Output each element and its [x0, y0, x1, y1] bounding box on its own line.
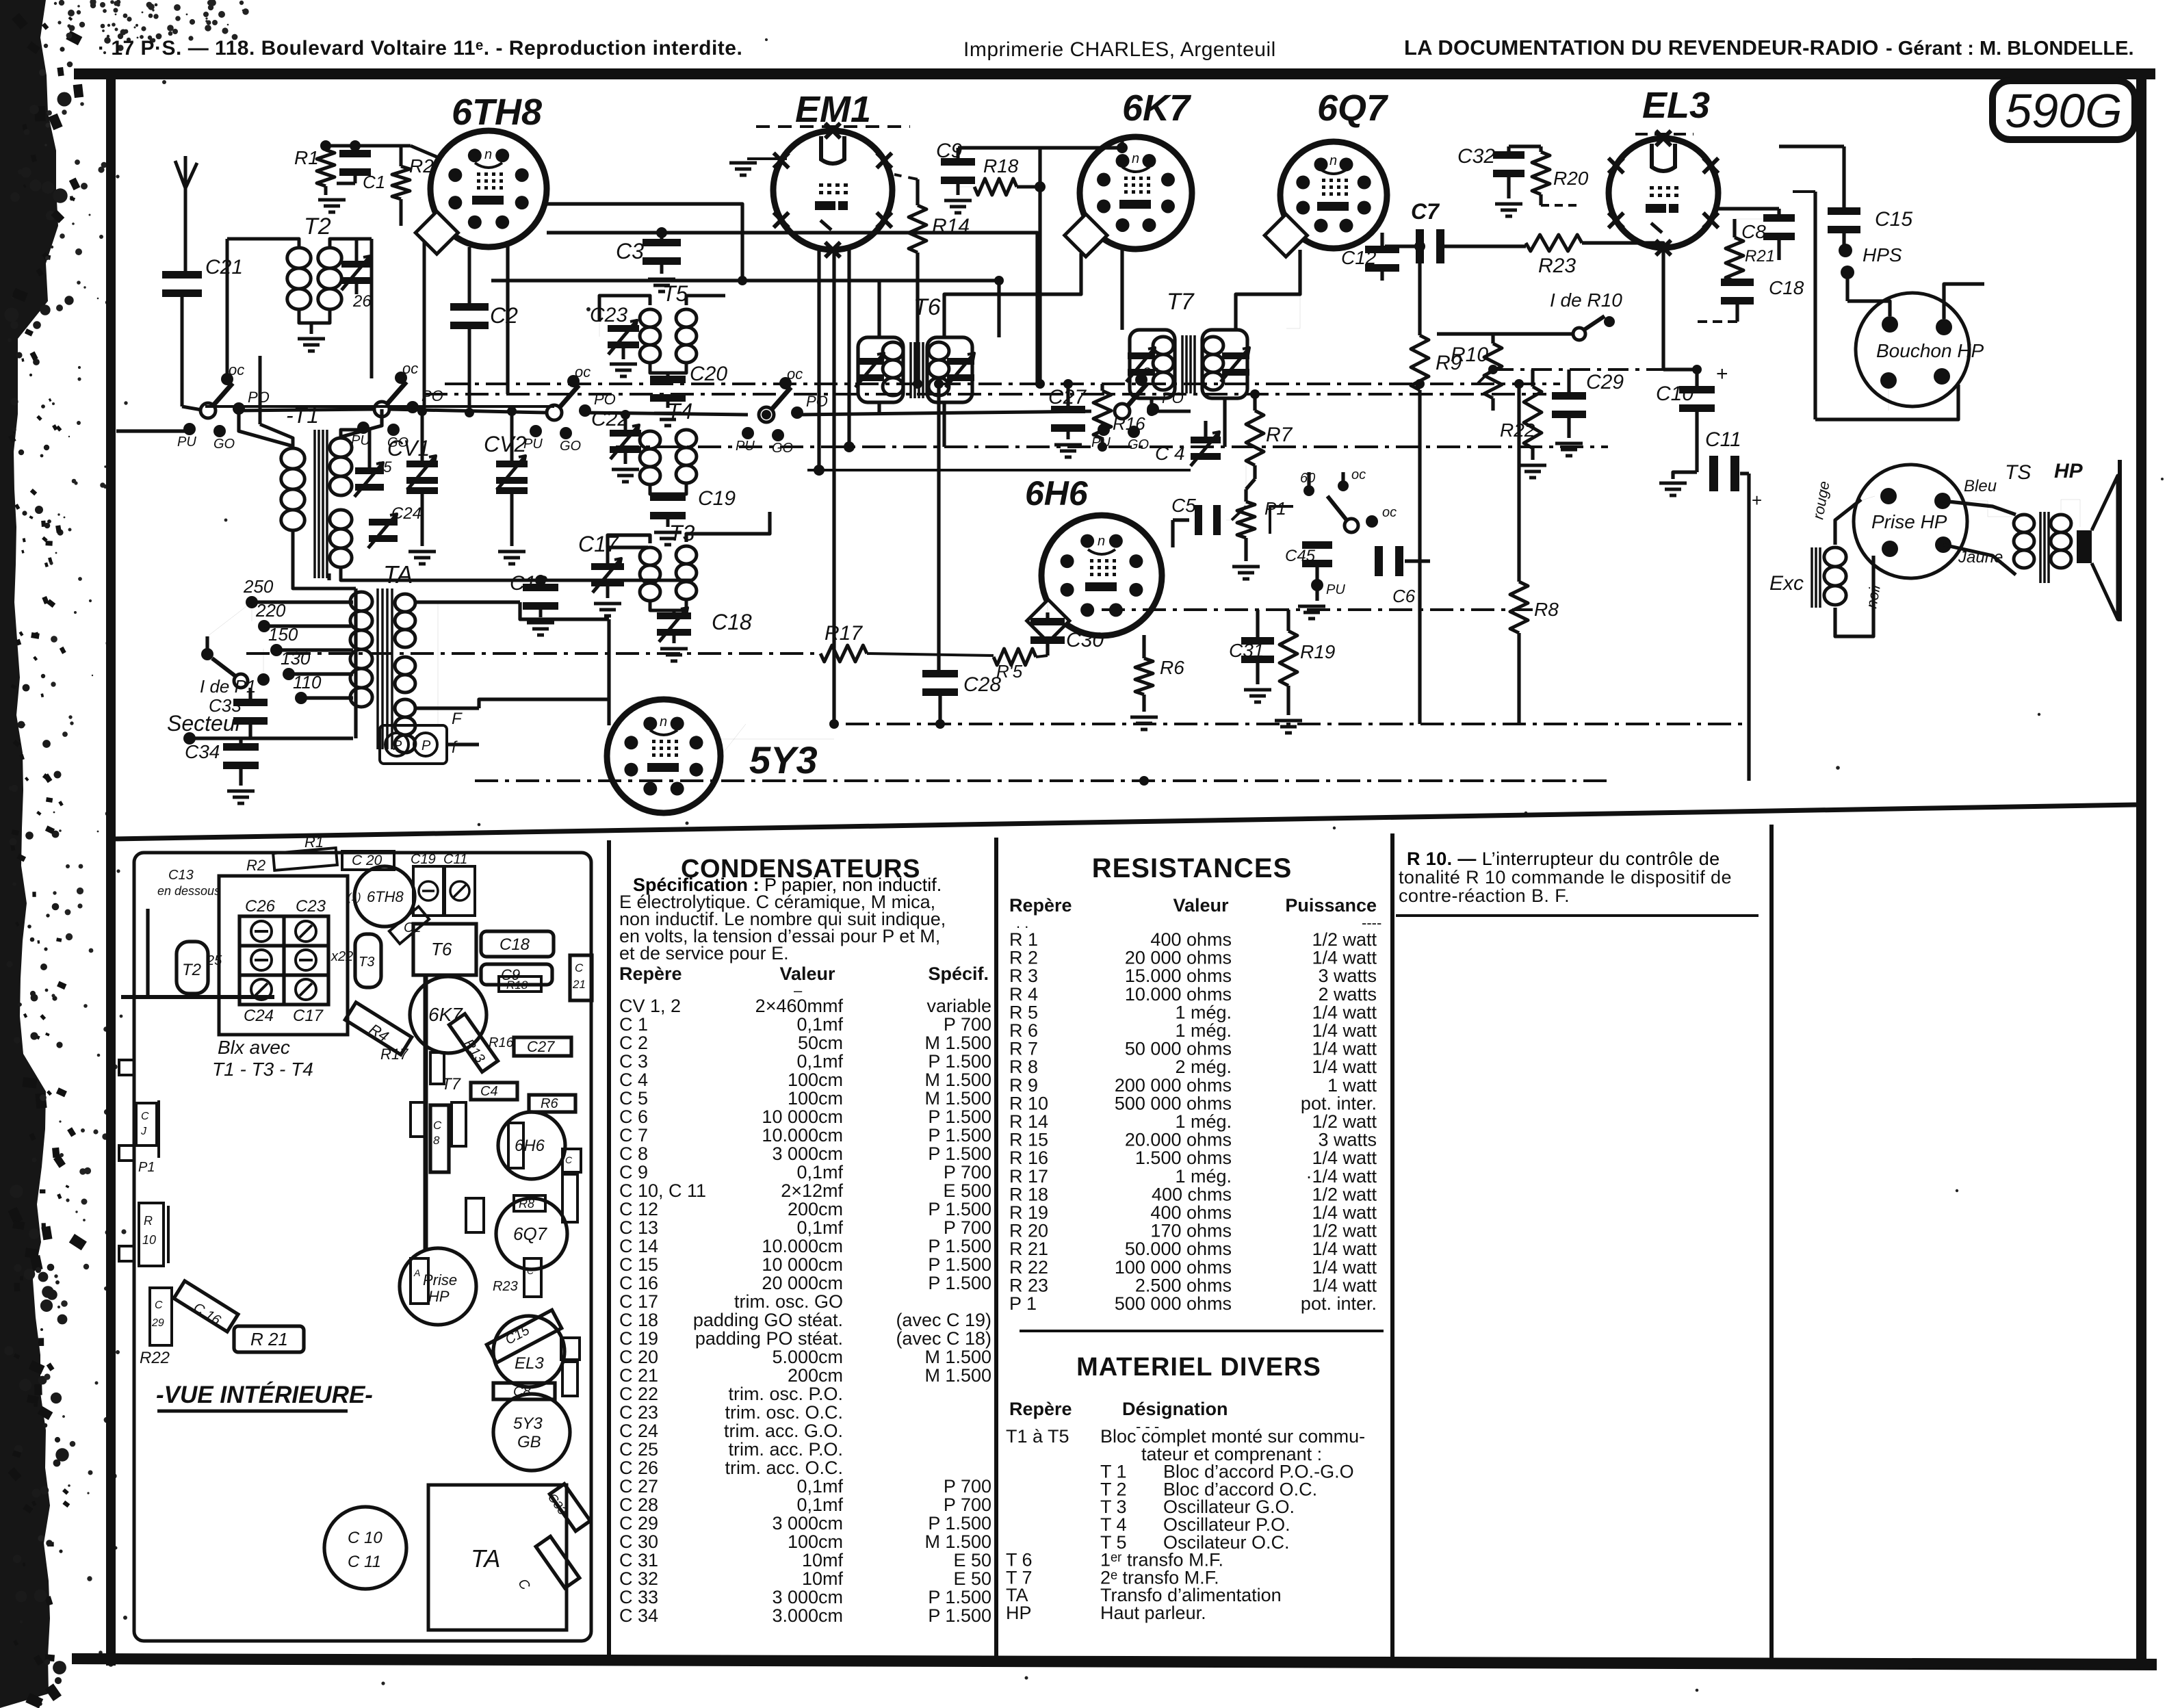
svg-text:C 23: C 23: [619, 1402, 658, 1423]
svg-text:P 700: P 700: [944, 1476, 991, 1497]
svg-text:C: C: [565, 1154, 573, 1165]
svg-text:oc: oc: [229, 361, 244, 378]
svg-text:R 4: R 4: [1009, 984, 1038, 1005]
svg-text:Repère: Repère: [1009, 1399, 1072, 1419]
svg-text:PU: PU: [351, 433, 370, 448]
svg-text:trim. acc. G.O.: trim. acc. G.O.: [724, 1421, 843, 1441]
svg-text:6Q7: 6Q7: [513, 1224, 548, 1244]
svg-text:10 000cm: 10 000cm: [762, 1107, 843, 1127]
svg-text:HPS: HPS: [1863, 244, 1902, 266]
svg-text:n: n: [484, 147, 492, 162]
svg-text:50.000 ohms: 50.000 ohms: [1125, 1239, 1232, 1259]
svg-text:170 ohms: 170 ohms: [1150, 1221, 1232, 1241]
svg-text:C27: C27: [527, 1038, 555, 1055]
svg-text:C19: C19: [411, 852, 436, 867]
svg-text:5.000cm: 5.000cm: [772, 1347, 843, 1367]
svg-text:C20: C20: [690, 363, 727, 385]
svg-text:6H6: 6H6: [515, 1137, 545, 1155]
svg-text:R22: R22: [1500, 419, 1535, 441]
svg-text:et de service pour E.: et de service pour E.: [619, 943, 789, 963]
svg-text:C8: C8: [1741, 221, 1766, 242]
svg-text:M 1.500: M 1.500: [924, 1531, 991, 1552]
svg-text:C10: C10: [1656, 383, 1694, 405]
svg-text:R6: R6: [1160, 657, 1184, 678]
svg-text:T5: T5: [662, 281, 688, 306]
svg-text:10 000cm: 10 000cm: [762, 1254, 843, 1275]
svg-text:EM1: EM1: [795, 89, 871, 130]
svg-text:GO: GO: [1128, 437, 1149, 452]
svg-text:590G: 590G: [2005, 84, 2122, 138]
svg-text:n: n: [660, 714, 667, 729]
svg-text:C 33: C 33: [619, 1587, 658, 1607]
svg-text:C18: C18: [1769, 277, 1804, 298]
svg-text:P 1.500: P 1.500: [928, 1125, 991, 1146]
svg-text:trim. acc. O.C.: trim. acc. O.C.: [725, 1458, 843, 1478]
svg-text:0,1mf: 0,1mf: [796, 1014, 843, 1035]
svg-text:T4: T4: [667, 399, 692, 424]
svg-text:C 11: C 11: [348, 1553, 381, 1571]
svg-text:EL3: EL3: [515, 1354, 544, 1373]
svg-text:HP: HP: [1006, 1603, 1032, 1623]
svg-text:T1 - T3 - T4: T1 - T3 - T4: [212, 1059, 313, 1080]
svg-text:400 chms: 400 chms: [1152, 1184, 1232, 1204]
svg-text:T6: T6: [431, 939, 452, 959]
svg-text:1/4 watt: 1/4 watt: [1312, 1148, 1377, 1168]
svg-text:M 1.500: M 1.500: [924, 1088, 991, 1109]
svg-text:M 1.500: M 1.500: [924, 1070, 991, 1090]
svg-text:1 watt: 1 watt: [1327, 1075, 1377, 1096]
svg-text:C31: C31: [1229, 640, 1264, 661]
svg-text:R21: R21: [1745, 247, 1775, 266]
svg-text:C6: C6: [1392, 586, 1416, 606]
svg-text:110: 110: [293, 672, 322, 693]
svg-text:C 21: C 21: [619, 1365, 658, 1386]
svg-text:C: C: [527, 1265, 534, 1276]
svg-text:C12: C12: [1341, 247, 1377, 268]
svg-text:R 10. — L’interrupteur du co: R 10. — L’interrupteur du contrôle de: [1407, 849, 1720, 869]
svg-text:+: +: [1716, 363, 1728, 385]
svg-text:P1: P1: [1264, 498, 1286, 519]
svg-text:MATERIEL DIVERS: MATERIEL DIVERS: [1076, 1353, 1321, 1382]
svg-text:10: 10: [142, 1233, 156, 1247]
svg-text:C 15: C 15: [619, 1254, 658, 1275]
svg-text:C 25: C 25: [619, 1439, 658, 1460]
svg-text:10.000cm: 10.000cm: [762, 1125, 843, 1146]
svg-text:C 20: C 20: [352, 853, 382, 868]
svg-text:C 6: C 6: [619, 1107, 648, 1127]
svg-text:T7: T7: [1167, 289, 1195, 315]
svg-text:n: n: [1329, 153, 1337, 168]
svg-text:C11: C11: [1705, 428, 1741, 451]
svg-text:M 1.500: M 1.500: [924, 1365, 991, 1386]
svg-text:GO: GO: [213, 437, 235, 452]
svg-text:R 15: R 15: [1009, 1130, 1048, 1150]
svg-text:C45: C45: [1285, 547, 1316, 565]
svg-text:C 24: C 24: [619, 1421, 658, 1441]
svg-text:C 31: C 31: [619, 1550, 658, 1570]
svg-text:1/2 watt: 1/2 watt: [1312, 1111, 1377, 1132]
svg-text:R22: R22: [140, 1349, 170, 1367]
svg-text:100cm: 100cm: [788, 1070, 843, 1090]
svg-text:50cm: 50cm: [798, 1033, 843, 1053]
svg-text:variable: variable: [926, 996, 991, 1016]
svg-text:C 12: C 12: [619, 1199, 658, 1219]
svg-text:trim. osc. GO: trim. osc. GO: [734, 1291, 843, 1312]
svg-text:PU: PU: [1326, 582, 1345, 597]
svg-text:R16: R16: [1113, 413, 1145, 434]
svg-text:C 18: C 18: [619, 1310, 658, 1330]
svg-text:TS: TS: [2005, 461, 2031, 484]
svg-text:C 28: C 28: [619, 1494, 658, 1515]
svg-text:1 még.: 1 még.: [1175, 1020, 1232, 1041]
svg-text:R 14: R 14: [1009, 1111, 1048, 1132]
svg-text:R 10: R 10: [1009, 1093, 1048, 1113]
svg-text:C24: C24: [391, 504, 421, 523]
svg-text:C 17: C 17: [619, 1291, 658, 1312]
svg-text:0,1mf: 0,1mf: [796, 1051, 843, 1072]
svg-text:HP: HP: [2054, 460, 2084, 482]
svg-text:P: P: [393, 738, 402, 753]
svg-text:C28: C28: [963, 673, 1001, 696]
svg-text:n: n: [1098, 534, 1105, 549]
svg-text:C3: C3: [616, 239, 644, 263]
svg-text:1.500 ohms: 1.500 ohms: [1135, 1148, 1232, 1168]
svg-text:R1: R1: [294, 147, 319, 168]
svg-text:R10: R10: [1451, 344, 1488, 366]
svg-text:E 500: E 500: [943, 1180, 991, 1201]
svg-text:1 még.: 1 még.: [1175, 1111, 1232, 1132]
svg-text:10.000cm: 10.000cm: [762, 1236, 843, 1256]
svg-text:C: C: [575, 961, 584, 974]
svg-text:C30: C30: [1066, 629, 1104, 651]
svg-text:C17: C17: [293, 1007, 324, 1025]
svg-text:Repère: Repère: [619, 963, 682, 984]
svg-text:150: 150: [268, 624, 298, 645]
svg-text:1/4 watt: 1/4 watt: [1312, 1039, 1377, 1059]
svg-text:3 000cm: 3 000cm: [772, 1513, 843, 1534]
svg-text:C: C: [155, 1299, 163, 1311]
svg-text:F: F: [452, 710, 463, 728]
svg-text:C 1: C 1: [619, 1014, 648, 1035]
svg-text:TA: TA: [383, 560, 413, 588]
svg-text:C21: C21: [205, 256, 243, 279]
svg-text:1/4 watt: 1/4 watt: [1312, 1239, 1377, 1259]
svg-text:C15: C15: [1875, 208, 1912, 231]
svg-text:pot. inter.: pot. inter.: [1301, 1093, 1377, 1113]
svg-text:C 13: C 13: [619, 1217, 658, 1238]
svg-text:1/4 watt: 1/4 watt: [1312, 1057, 1377, 1077]
svg-text:130: 130: [281, 648, 311, 669]
svg-text:C 5: C 5: [619, 1088, 648, 1109]
svg-text:10.000 ohms: 10.000 ohms: [1125, 984, 1232, 1005]
svg-text:R17: R17: [380, 1046, 408, 1063]
svg-text:M 1.500: M 1.500: [924, 1347, 991, 1367]
svg-text:P 700: P 700: [944, 1162, 991, 1182]
svg-text:2 watts: 2 watts: [1318, 984, 1377, 1005]
svg-text:C 8: C 8: [619, 1143, 648, 1164]
svg-text:P 1: P 1: [1009, 1293, 1037, 1314]
svg-text:R17: R17: [825, 622, 863, 645]
svg-text:20 000cm: 20 000cm: [762, 1273, 843, 1293]
svg-text:E 50: E 50: [953, 1568, 991, 1589]
svg-text:5Y3: 5Y3: [513, 1414, 543, 1433]
svg-text:1/2 watt: 1/2 watt: [1312, 929, 1377, 950]
svg-text:0,1mf: 0,1mf: [796, 1476, 843, 1497]
svg-text:R 6: R 6: [1009, 1020, 1038, 1041]
svg-text:·1/4 watt: ·1/4 watt: [1306, 1166, 1377, 1187]
svg-text:C1: C1: [363, 172, 385, 192]
svg-text:3 000cm: 3 000cm: [772, 1143, 843, 1164]
svg-text:contre-réaction B. F.: contre-réaction B. F.: [1399, 885, 1570, 906]
svg-text:T2: T2: [304, 213, 331, 240]
svg-text:0,1mf: 0,1mf: [796, 1494, 843, 1515]
svg-text:R 17: R 17: [1009, 1166, 1048, 1187]
svg-text:C18: C18: [712, 610, 752, 634]
svg-text:HP: HP: [428, 1288, 450, 1305]
svg-text:C19: C19: [698, 487, 736, 510]
svg-text:R18: R18: [983, 155, 1019, 177]
svg-text:trim. osc. P.O.: trim. osc. P.O.: [728, 1384, 843, 1404]
svg-text:1/4 watt: 1/4 watt: [1312, 948, 1377, 968]
svg-text:26: 26: [352, 292, 372, 311]
svg-text:- Gérant : M. BLONDELLE.: - Gérant : M. BLONDELLE.: [1886, 38, 2134, 60]
svg-text:1/4 watt: 1/4 watt: [1312, 1020, 1377, 1041]
svg-text:100 000 ohms: 100 000 ohms: [1115, 1257, 1232, 1278]
svg-text:100cm: 100cm: [788, 1531, 843, 1552]
svg-text:P 1.500: P 1.500: [928, 1051, 991, 1072]
svg-text:J: J: [140, 1126, 147, 1137]
svg-text:R19: R19: [1300, 641, 1335, 662]
svg-text:6TH8: 6TH8: [452, 92, 542, 133]
svg-text:RESISTANCES: RESISTANCES: [1092, 853, 1293, 883]
svg-text:R8: R8: [1534, 599, 1559, 620]
svg-text:C 19: C 19: [619, 1328, 658, 1349]
svg-text:R23: R23: [1538, 255, 1576, 277]
svg-text:P 1.500: P 1.500: [928, 1513, 991, 1534]
svg-text:oc: oc: [787, 365, 803, 383]
svg-text:A: A: [413, 1267, 420, 1278]
svg-text:Bleu: Bleu: [1964, 477, 1997, 495]
svg-text:C2: C2: [490, 303, 518, 328]
svg-text:R 8: R 8: [1009, 1057, 1038, 1077]
svg-text:P 1.500: P 1.500: [928, 1143, 991, 1164]
svg-text:P 1.500: P 1.500: [928, 1605, 991, 1626]
svg-text:P 700: P 700: [944, 1014, 991, 1035]
svg-text:C 7: C 7: [619, 1125, 648, 1146]
svg-text:C: C: [433, 1119, 442, 1132]
svg-text:1/4 watt: 1/4 watt: [1312, 1202, 1377, 1223]
svg-text:trim. osc. O.C.: trim. osc. O.C.: [725, 1402, 843, 1423]
svg-text:I de P1: I de P1: [200, 676, 256, 697]
svg-text:R 21: R 21: [1009, 1239, 1048, 1259]
svg-text:P 700: P 700: [944, 1217, 991, 1238]
svg-text:Désignation: Désignation: [1122, 1399, 1228, 1419]
svg-text:(avec C 19): (avec C 19): [896, 1310, 991, 1330]
svg-text:50 000 ohms: 50 000 ohms: [1125, 1039, 1232, 1059]
svg-text:PU: PU: [523, 437, 543, 452]
svg-text:· 17 P·S. — 118. Boulevard: · 17 P·S. — 118. Boulevard Voltaire 11ᵉ.…: [98, 37, 742, 60]
svg-text:1/4 watt: 1/4 watt: [1312, 1002, 1377, 1022]
svg-text:I de R10: I de R10: [1550, 289, 1622, 311]
svg-text:R 22: R 22: [1009, 1257, 1048, 1278]
svg-text:400 ohms: 400 ohms: [1150, 1202, 1232, 1223]
svg-text:200cm: 200cm: [788, 1365, 843, 1386]
svg-text:250: 250: [243, 576, 274, 597]
svg-text:T6: T6: [913, 294, 941, 320]
svg-text:R16: R16: [489, 1035, 515, 1050]
svg-text:C 16: C 16: [619, 1273, 658, 1293]
svg-text:+: +: [1752, 490, 1762, 510]
svg-text:25: 25: [374, 458, 392, 476]
svg-text:E 50: E 50: [953, 1550, 991, 1570]
svg-text:(avec C 18): (avec C 18): [896, 1328, 991, 1349]
svg-text:C 34: C 34: [619, 1605, 658, 1626]
svg-text:R1: R1: [304, 833, 324, 851]
svg-text:C 26: C 26: [619, 1458, 658, 1478]
svg-text:20.000 ohms: 20.000 ohms: [1125, 1130, 1232, 1150]
svg-text:Puissance: Puissance: [1285, 895, 1377, 916]
svg-text:Bouchon HP: Bouchon HP: [1876, 340, 1984, 361]
svg-text:C26: C26: [245, 897, 276, 916]
svg-text:pot. inter.: pot. inter.: [1301, 1293, 1377, 1314]
svg-text:tonalité R 10 commande le: tonalité R 10 commande le dispositif de: [1399, 867, 1732, 888]
svg-text:oc: oc: [575, 363, 591, 380]
svg-text:T3: T3: [359, 955, 374, 970]
svg-text:GB: GB: [517, 1433, 541, 1451]
svg-text:100cm: 100cm: [788, 1088, 843, 1109]
svg-text:29: 29: [151, 1317, 164, 1329]
svg-text:T1 à T5: T1 à T5: [1006, 1426, 1069, 1447]
svg-text:200cm: 200cm: [788, 1199, 843, 1219]
svg-text:C 27: C 27: [619, 1476, 658, 1497]
svg-text:500 000 ohms: 500 000 ohms: [1115, 1293, 1232, 1314]
svg-text:500 000 ohms: 500 000 ohms: [1115, 1093, 1232, 1113]
svg-text:C 4: C 4: [1155, 443, 1185, 464]
svg-text:R 16: R 16: [1009, 1148, 1048, 1168]
svg-text:6K7: 6K7: [428, 1004, 463, 1025]
svg-text:C 9: C 9: [619, 1162, 648, 1182]
svg-text:0,1mf: 0,1mf: [796, 1217, 843, 1238]
svg-text:R14: R14: [932, 215, 970, 237]
svg-text:R2: R2: [246, 857, 265, 874]
svg-text:C29: C29: [1586, 371, 1624, 393]
svg-text:6H6: 6H6: [1025, 474, 1089, 513]
svg-text:C 29: C 29: [619, 1513, 658, 1534]
svg-text:1/4 watt: 1/4 watt: [1312, 1275, 1377, 1295]
svg-text:Prise HP: Prise HP: [1871, 511, 1947, 532]
svg-text:C 22: C 22: [619, 1384, 658, 1404]
svg-text:5Y3: 5Y3: [749, 738, 818, 781]
svg-text:0,1mf: 0,1mf: [796, 1162, 843, 1182]
svg-text:C 4: C 4: [619, 1070, 648, 1090]
svg-text:R 21: R 21: [250, 1329, 288, 1349]
svg-text:R 18: R 18: [1009, 1184, 1048, 1204]
svg-text:EL3: EL3: [1642, 85, 1710, 126]
svg-text:padding PO stéat.: padding PO stéat.: [695, 1328, 843, 1349]
svg-text:R 19: R 19: [1009, 1202, 1048, 1223]
svg-text:C4: C4: [480, 1084, 498, 1099]
svg-text:C 2: C 2: [619, 1033, 648, 1053]
svg-text:LA DOCUMENTATION DU REVENDEUR-: LA DOCUMENTATION DU REVENDEUR-RADIO: [1404, 36, 1879, 60]
svg-text:6TH8: 6TH8: [367, 888, 404, 905]
svg-text:R6: R6: [541, 1096, 558, 1111]
svg-text:3 000cm: 3 000cm: [772, 1587, 843, 1607]
svg-text:25: 25: [206, 953, 222, 968]
svg-text:PU: PU: [177, 435, 196, 450]
svg-text:21: 21: [572, 978, 586, 991]
svg-text:C5: C5: [1171, 495, 1196, 516]
svg-text:3 watts: 3 watts: [1318, 1130, 1377, 1150]
svg-text:20 000 ohms: 20 000 ohms: [1125, 948, 1232, 968]
svg-text:C 3: C 3: [619, 1051, 648, 1072]
svg-text:R: R: [144, 1214, 153, 1228]
svg-text:C 10: C 10: [348, 1529, 382, 1547]
svg-text:R 23: R 23: [1009, 1275, 1048, 1295]
svg-text:P 1.500: P 1.500: [928, 1254, 991, 1275]
svg-text:x22: x22: [330, 949, 353, 964]
svg-text:220: 220: [255, 600, 286, 621]
svg-text:C 14: C 14: [619, 1236, 658, 1256]
svg-text:R 1: R 1: [1009, 929, 1038, 950]
svg-text:200 000 ohms: 200 000 ohms: [1115, 1075, 1232, 1096]
svg-text:Repère: Repère: [1009, 895, 1072, 916]
svg-text:R 9: R 9: [1009, 1075, 1038, 1096]
svg-text:3.000cm: 3.000cm: [772, 1605, 843, 1626]
svg-text:P 1.500: P 1.500: [928, 1587, 991, 1607]
svg-text:C7: C7: [1411, 199, 1440, 224]
svg-text:P 700: P 700: [944, 1494, 991, 1515]
svg-text:P 1.500: P 1.500: [928, 1107, 991, 1127]
svg-text:R 2: R 2: [1009, 948, 1038, 968]
svg-text:10mf: 10mf: [802, 1550, 844, 1570]
svg-text:R 3: R 3: [1009, 966, 1038, 986]
svg-text:Secteur: Secteur: [167, 711, 244, 736]
svg-text:trim. acc. P.O.: trim. acc. P.O.: [728, 1439, 843, 1460]
svg-text:C32: C32: [1457, 145, 1495, 168]
svg-text:M 1.500: M 1.500: [924, 1033, 991, 1053]
svg-text:2×460mmf: 2×460mmf: [755, 996, 844, 1016]
svg-text:C13: C13: [168, 868, 194, 883]
svg-text:C18: C18: [499, 935, 530, 954]
svg-text:Exc: Exc: [1769, 572, 1804, 595]
svg-text:en dessous: en dessous: [157, 884, 220, 898]
svg-text:6K7: 6K7: [1122, 88, 1192, 129]
svg-text:Blx avec: Blx avec: [218, 1037, 290, 1058]
svg-text:P: P: [421, 738, 431, 753]
svg-text:1/2 watt: 1/2 watt: [1312, 1221, 1377, 1241]
svg-text:1/2 watt: 1/2 watt: [1312, 1184, 1377, 1204]
svg-text:P 1.500: P 1.500: [928, 1199, 991, 1219]
svg-text:C 20: C 20: [619, 1347, 658, 1367]
svg-text:2.500 ohms: 2.500 ohms: [1135, 1275, 1232, 1295]
svg-text:Haut parleur.: Haut parleur.: [1100, 1603, 1206, 1623]
svg-text:R 7: R 7: [1009, 1039, 1038, 1059]
svg-text:Spécif.: Spécif.: [928, 963, 989, 984]
svg-text:T2: T2: [182, 961, 201, 979]
svg-text:padding GO stéat.: padding GO stéat.: [693, 1310, 843, 1330]
svg-text:CV 1, 2: CV 1, 2: [619, 996, 681, 1016]
svg-text:3 watts: 3 watts: [1318, 966, 1377, 986]
svg-text:oc: oc: [402, 360, 418, 377]
svg-text:-VUE INTÉRIEURE-: -VUE INTÉRIEURE-: [156, 1382, 373, 1408]
svg-text:10mf: 10mf: [802, 1568, 844, 1589]
svg-text:R18: R18: [506, 979, 528, 992]
svg-text:400 ohms: 400 ohms: [1150, 929, 1232, 950]
svg-text:C34: C34: [185, 741, 220, 762]
svg-text:P1: P1: [138, 1160, 155, 1175]
svg-text:C 10, C 11: C 10, C 11: [619, 1180, 706, 1201]
svg-text:TA: TA: [471, 1544, 500, 1573]
